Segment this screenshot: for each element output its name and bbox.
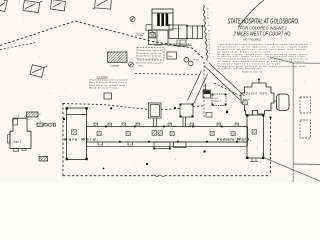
long dashed fence line <box>0 21 203 58</box>
svg-text:If burned no guarantee as to w: If burned no guarantee as to water <box>89 79 128 82</box>
road name squiggle (vertical) <box>203 5 208 61</box>
circled mark on hill <box>130 16 135 21</box>
small shed at boundary <box>104 93 112 99</box>
svg-text:Brick boiler ho. shingle roofs: Brick boiler ho. shingle roofs <box>89 84 125 87</box>
svg-text:Hose on premises: Hose on premises <box>138 57 158 60</box>
boiler stacks (black bars) <box>157 14 168 27</box>
note box (dashed) <box>137 48 164 61</box>
stable <box>167 52 177 59</box>
svg-text:Water from wells and tanks: Water from wells and tanks <box>136 61 163 64</box>
water tank circles <box>184 58 189 63</box>
property boundary west (dashed) <box>62 103 64 177</box>
porch steps below range <box>98 142 133 145</box>
square outbuilding 1 (double wall) <box>149 103 162 127</box>
svg-text:Male Ward.: Male Ward. <box>64 137 98 142</box>
fence x204 vertical <box>203 62 205 118</box>
dashed outbuilding right 2 <box>300 120 311 138</box>
svg-text:2 MILES WEST OF COURT HO.: 2 MILES WEST OF COURT HO. <box>233 31 292 37</box>
svg-text:Dead Ho.: Dead Ho. <box>154 45 163 47</box>
title leader line <box>238 0 264 27</box>
svg-text:Lumber: Lumber <box>111 64 120 68</box>
square outbuilding 2 <box>180 104 193 127</box>
fence along rear (y74) <box>135 74 200 75</box>
svg-text:Supt. 2: Supt. 2 <box>14 141 22 144</box>
property boundary north (dashed) <box>63 104 149 110</box>
svg-text:Dance Hall.: Dance Hall. <box>246 92 269 96</box>
svg-text:Dining Rm: Dining Rm <box>171 28 181 30</box>
tiny story labels <box>18 81 254 123</box>
rear kitchen rooms <box>154 142 186 149</box>
road line east horizontal lower <box>293 163 320 166</box>
tree dots <box>110 107 112 109</box>
engine room block <box>149 30 169 45</box>
kitchen building <box>187 26 203 39</box>
shed below residence <box>39 157 48 162</box>
pest house (dotted square) <box>212 94 227 106</box>
superintendent residence <box>10 118 31 148</box>
property boundary east (dashed) <box>270 118 272 176</box>
house H1 (top-left, cut off) <box>0 0 7 12</box>
dance hall east annex <box>277 94 290 111</box>
svg-text:Steam heat, lights oil: Steam heat, lights oil <box>138 49 163 52</box>
svg-text:Pest: Pest <box>214 97 218 100</box>
dashed fence spur <box>0 43 36 50</box>
dormer squares above range <box>94 123 239 127</box>
servants house above residence <box>26 112 38 117</box>
flag building <box>203 84 211 99</box>
small shed by road <box>206 113 212 118</box>
svg-text:Male & Female Wards 2 story: Male & Female Wards 2 story <box>89 81 128 84</box>
boiler house <box>152 9 173 30</box>
dance hall <box>241 83 274 115</box>
veranda line <box>87 145 248 147</box>
small crib building <box>149 33 156 39</box>
road to southeast diagonal <box>264 158 320 182</box>
svg-text:STATE HOSPITAL AT GOLDSBORO.: STATE HOSPITAL AT GOLDSBORO. <box>228 19 300 26</box>
svg-text:Wood heated thruout: Wood heated thruout <box>89 86 119 89</box>
svg-text:Lanterns used, no: Lanterns used, no <box>138 52 162 55</box>
road line east vertical <box>292 63 294 183</box>
female ward wing <box>247 115 264 158</box>
lumber shed <box>108 52 128 62</box>
male ward wing <box>67 108 87 160</box>
svg-text:of rubbish, ordinary hazards o: of rubbish, ordinary hazards only <box>218 68 263 70</box>
svg-text:Stab.: Stab. <box>168 55 173 58</box>
house H2 <box>23 0 42 13</box>
road SE branch <box>205 66 241 100</box>
svg-text:(FOR COLORED INSANE.): (FOR COLORED INSANE.) <box>239 26 287 31</box>
chimney squares on range <box>105 126 238 143</box>
description paragraph <box>218 43 309 70</box>
svg-text:House 1: House 1 <box>214 101 222 103</box>
svg-text:W.Tr.: W.Tr. <box>139 65 144 68</box>
interior room squares <box>97 131 235 136</box>
house H3 <box>50 0 65 11</box>
tree dot with stem <box>226 109 228 112</box>
house H5 (northwest of residence) <box>30 62 48 78</box>
road line east horizontal top <box>293 62 320 64</box>
main ward range <box>87 127 248 143</box>
fence crossing to dance hall <box>214 83 242 97</box>
dashed outbuilding right 1 <box>300 97 311 113</box>
small annex under kitchen <box>177 40 186 47</box>
row of small outbuildings <box>37 123 43 127</box>
house H4 <box>93 0 112 11</box>
svg-text:& Stable: & Stable <box>136 34 144 37</box>
paper background <box>0 0 320 182</box>
svg-text:Laundry, Bakery &c.: Laundry, Bakery &c. <box>168 42 192 46</box>
svg-text:watchman kept &c.: watchman kept &c. <box>138 55 162 58</box>
svg-text:Scale of feet, 50.: Scale of feet, 50. <box>242 71 263 74</box>
dining building <box>169 25 187 39</box>
svg-text:W.Tks: W.Tks <box>194 60 200 62</box>
svg-text:NOT INSURED.: NOT INSURED. <box>244 38 262 42</box>
road approach diagonal <box>270 57 293 63</box>
scan speckle noise <box>8 2 312 172</box>
svg-text:Female Ward.: Female Ward. <box>217 137 251 142</box>
circled mark by lumber <box>129 62 134 67</box>
property boundary south (dashed with wavy part) <box>63 175 153 177</box>
road SW branch <box>188 71 202 101</box>
